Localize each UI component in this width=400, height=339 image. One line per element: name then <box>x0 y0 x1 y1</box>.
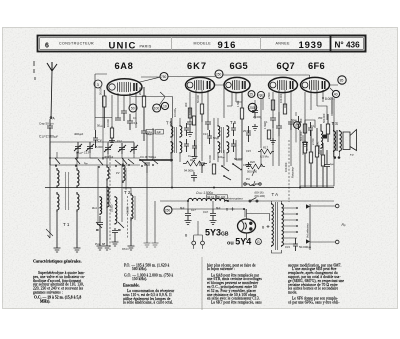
AVC line <box>95 117 112 119</box>
tube 6G5 envelope <box>224 77 250 92</box>
oscillator coil T2 winding 3 <box>131 193 133 221</box>
wire tube drops mid <box>147 108 224 166</box>
transformer TA taps <box>283 207 298 244</box>
coil T1 secondary GO <box>77 192 79 212</box>
capacitor T5 tuning top <box>184 123 189 136</box>
dial lamp terminal 1 <box>192 235 196 249</box>
capacitor 6Q7 a <box>270 118 276 128</box>
output transformer TS <box>332 121 342 159</box>
potentiometer Pu <box>244 177 261 186</box>
voltage circle 25 <box>248 91 255 98</box>
pin circle 2 <box>257 91 264 98</box>
capacitor 6K7 extra <box>192 140 197 154</box>
capacitor 6Q7 c <box>288 122 294 130</box>
transformer TA secondary <box>282 203 284 247</box>
resistor mid a <box>208 155 216 174</box>
capacitor 50µµ <box>141 121 152 141</box>
capacitor 0.1 <box>127 114 138 130</box>
boxed labels u4 <box>146 130 164 135</box>
ground T1 a <box>54 212 61 252</box>
capacitor 8µF C17 <box>180 206 197 225</box>
HT rail <box>45 187 334 189</box>
capacitor mid a <box>144 163 150 173</box>
ground osc 2 <box>97 233 104 251</box>
antenna <box>47 62 57 119</box>
resistor cluster 6A8 bottom <box>106 119 114 142</box>
resistor stack right a <box>299 120 307 187</box>
tube 6A8 electrodes <box>109 82 137 92</box>
resistor 0.5M horizontal <box>258 146 274 159</box>
oscillator extra winding <box>115 196 117 225</box>
transformer TA labels <box>255 191 279 199</box>
margin marks <box>34 61 35 80</box>
wire 6A8 pins down <box>112 92 136 128</box>
speaker field coil <box>317 124 327 155</box>
filter choke <box>188 191 228 201</box>
capacitor C 2960 <box>39 134 59 165</box>
wire grid bus <box>50 157 140 159</box>
boxed labels 60-16 60-100 <box>207 195 228 199</box>
oscillator coil T2 winding 1 <box>107 165 109 208</box>
voltage circle 250 filter <box>164 206 172 214</box>
ground 6K7 extra <box>192 154 198 161</box>
band switch contacts osc <box>96 222 124 231</box>
wire osc feeds <box>98 158 131 222</box>
band switch contacts left <box>55 158 127 168</box>
pin circle 3 <box>94 80 102 88</box>
wire 6Q7 couplings <box>261 118 291 167</box>
tube 6Q7 electrodes <box>270 80 293 90</box>
padder caps bottom <box>97 216 118 238</box>
voltage circle 100 <box>153 104 161 112</box>
resistor 6K7 a <box>184 102 192 118</box>
circled G <box>256 239 262 245</box>
tube 6K7 envelope <box>186 77 215 92</box>
capacitor C13 6K7 <box>203 130 219 144</box>
wire top caps feed <box>78 142 134 158</box>
mains terminal 2 <box>335 240 339 244</box>
oscillator extra winding 2 <box>100 196 102 215</box>
dial lamp terminal 2 <box>201 235 205 249</box>
wire 6F6 pins <box>305 85 338 120</box>
capacitor CV2 <box>117 139 126 154</box>
wire 6A8 plate to supply <box>131 75 310 118</box>
capacitor Cap 50cm <box>39 117 56 139</box>
capacitor trimmer 3 <box>130 143 138 154</box>
rotacteur dashed line <box>109 155 111 250</box>
capacitor C19 <box>285 238 312 251</box>
tube 6F6 envelope <box>301 77 330 92</box>
voltage circle 250 <box>215 70 223 78</box>
core T2 <box>126 168 135 220</box>
rotacteur dashed right <box>284 140 295 202</box>
wire mid drops to ground <box>144 173 159 247</box>
resistor 6Q7 a <box>267 92 275 110</box>
capacitor right e <box>324 150 335 188</box>
column rule <box>201 257 203 310</box>
capacitor 8µF C18 <box>203 206 221 225</box>
voltage circle 250b <box>248 103 256 111</box>
wire right bus <box>300 100 334 187</box>
speaker <box>343 130 357 157</box>
capacitor 6K7 k <box>187 122 193 130</box>
column 3 paragraph <box>207 263 262 305</box>
switch row mid left <box>115 159 158 167</box>
voltage circle 50 <box>129 104 137 112</box>
capacitor 6A8 cathode <box>115 118 121 120</box>
resistor stack right d <box>317 143 325 187</box>
ground T2 <box>104 181 111 250</box>
divider <box>171 38 173 50</box>
AVC rail <box>46 128 53 238</box>
wire 6G5 <box>227 92 242 106</box>
tube 6F6 electrodes <box>302 80 325 90</box>
capacitor 6K7 g <box>205 122 211 130</box>
resistor 50.000 6A8 <box>99 87 107 128</box>
capacitor 6Q7 d <box>252 106 261 119</box>
oscillator coil T2 winding 2 <box>123 163 125 183</box>
resistor 6Q7 b <box>279 93 287 114</box>
resistor 1M 6Q7 <box>263 123 271 139</box>
trimmer capacitor 400µµF <box>74 132 89 155</box>
resistor stack right b <box>305 130 313 187</box>
CU wire <box>140 118 173 187</box>
capacitor 6F6 k <box>308 122 315 136</box>
resistor 8000 ohm label <box>322 97 335 101</box>
ground T1 b <box>74 212 81 252</box>
wire switch to coils <box>50 142 134 165</box>
ground osc 3 <box>112 238 119 247</box>
capacitor 6A8 osc grid <box>93 130 103 149</box>
tube 6Q7 envelope <box>269 77 298 92</box>
capacitor 6Q7 e <box>291 116 301 130</box>
ground osc <box>128 217 135 250</box>
trimmer capacitor <box>86 142 94 153</box>
voltage circle 40 <box>332 90 339 97</box>
number box N 436 <box>331 36 366 52</box>
capacitor mid b <box>199 163 205 173</box>
resistor 1 Mohm 6G5 <box>236 92 244 159</box>
wire TA top <box>272 201 282 253</box>
voltage circle 10 <box>161 102 168 109</box>
wire 6K7 pins <box>190 85 224 122</box>
wire lamps <box>194 221 203 235</box>
capacitor 6Q7 b <box>276 112 282 136</box>
resistor 4.000 6K7 <box>188 108 196 125</box>
voltage circle 85 <box>338 76 346 84</box>
mains terminal 1 <box>335 204 339 208</box>
transformer TA core <box>276 202 278 250</box>
resistor 300 6F6 <box>299 118 307 133</box>
coil T1 secondary PO <box>77 168 79 188</box>
capacitor T6 tuning bottom <box>231 139 236 152</box>
column 2 paragraph <box>123 263 175 305</box>
transformer TA primary <box>272 203 274 247</box>
resistor R11 horizontal <box>183 154 207 173</box>
resistor stack right c <box>311 128 319 187</box>
capacitor 6G5 grid <box>243 126 251 142</box>
circled 10b <box>294 122 301 129</box>
grounds row tubes <box>109 124 308 147</box>
resistor 500.000 right <box>322 113 330 142</box>
filter rail <box>160 201 334 217</box>
coil T1 primary PO <box>57 168 59 188</box>
resistor R20 potentiometer <box>246 160 265 176</box>
capacitor 6A8 grid <box>121 111 127 121</box>
wire antenna bus <box>50 164 140 166</box>
rectifier 5Y3 tube <box>238 209 270 240</box>
capacitor CV padder <box>97 96 114 160</box>
wire 6G5 drop <box>236 140 242 187</box>
divider <box>260 38 262 50</box>
title cartouche frame <box>38 36 366 52</box>
tube 6A8 stage box <box>95 74 160 130</box>
capacitor C14 <box>191 172 197 182</box>
IF transformer T5 <box>166 118 182 162</box>
core T1 <box>66 172 69 210</box>
mains selector <box>306 204 336 250</box>
switch contacts detector <box>221 157 248 180</box>
voltage circle 750 <box>160 73 168 81</box>
wire extra verticals <box>255 96 332 155</box>
resistor 20.000 6A8 <box>138 87 146 121</box>
wire bottom screen bus <box>76 158 78 168</box>
column 4 paragraph <box>288 263 344 305</box>
ground 6G5 extra <box>246 162 252 169</box>
junction dots <box>49 127 301 210</box>
capacitor T6 tuning top <box>231 123 236 136</box>
wire 6Q7 pins <box>257 90 291 130</box>
column 1 paragraph <box>33 271 86 303</box>
tube 6G5 electrodes <box>226 80 245 90</box>
IF transformer T6 <box>218 118 237 162</box>
resistor 6K7 b <box>196 95 204 122</box>
coil T1 primary GO <box>57 192 59 212</box>
tube 6K7 electrodes <box>187 80 210 90</box>
tube 6A8 envelope <box>107 79 142 96</box>
capacitor T5 tuning bottom <box>184 139 189 152</box>
